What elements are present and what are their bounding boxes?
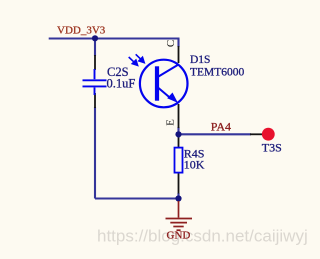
svg-text:0.1uF: 0.1uF (107, 77, 136, 91)
svg-text:TEMT6000: TEMT6000 (190, 67, 245, 79)
svg-text:https://blog.csdn.net/caijiwyj: https://blog.csdn.net/caijiwyj (97, 227, 308, 246)
svg-text:D1S: D1S (190, 54, 210, 66)
svg-text:C: C (165, 40, 177, 47)
svg-text:T3S: T3S (262, 140, 282, 154)
svg-text:VDD_3V3: VDD_3V3 (57, 25, 106, 37)
svg-text:10K: 10K (184, 158, 205, 172)
svg-text:E: E (165, 119, 177, 126)
svg-text:GND: GND (167, 230, 191, 242)
svg-text:PA4: PA4 (211, 120, 231, 134)
